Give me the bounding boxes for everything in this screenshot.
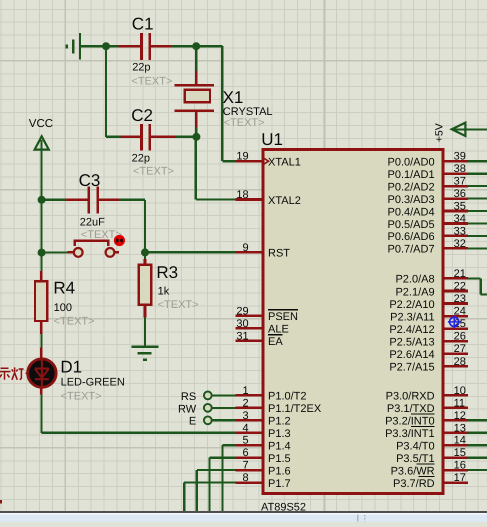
svg-text:P3.3/INT1: P3.3/INT1 bbox=[385, 428, 435, 440]
svg-text:24: 24 bbox=[454, 306, 466, 318]
svg-text:12: 12 bbox=[454, 410, 466, 422]
svg-text:P2.0/A8: P2.0/A8 bbox=[395, 274, 434, 286]
wire pin 38 bbox=[468, 173, 487, 175]
svg-text:15: 15 bbox=[454, 447, 466, 459]
IC U1 AT89S52 body bbox=[263, 150, 443, 494]
svg-text:1: 1 bbox=[242, 385, 248, 397]
U1 pin 37 (P0.2/AD2) stub bbox=[442, 185, 468, 188]
svg-text:EA: EA bbox=[268, 336, 283, 348]
svg-text:C1: C1 bbox=[132, 15, 154, 34]
svg-text:P2.4/A12: P2.4/A12 bbox=[389, 324, 434, 336]
svg-text:<TEXT>: <TEXT> bbox=[131, 75, 172, 87]
capacitor C1 bbox=[140, 33, 151, 60]
wire pin 16 bbox=[468, 469, 487, 471]
svg-text:34: 34 bbox=[454, 213, 466, 225]
U1 pin 38 (P0.1/AD1) stub bbox=[442, 172, 468, 175]
label indicator (chinese) bbox=[0, 367, 24, 379]
U1 pin 6 (P1.5) stub bbox=[236, 456, 264, 459]
ground (below R3) bbox=[131, 347, 158, 360]
resistor R4 pin bottom bbox=[40, 321, 43, 334]
svg-text:1k: 1k bbox=[158, 286, 170, 298]
U1 pin 22 (P2.1/A9) stub bbox=[442, 290, 468, 293]
wire LED to P1.3 bbox=[41, 432, 235, 434]
U1 pin 17 (P3.7/RD) stub bbox=[442, 481, 468, 484]
svg-text:4: 4 bbox=[242, 422, 248, 434]
U1 pin 35 (P0.4/AD4) stub bbox=[442, 210, 468, 213]
crystal X1 bottom pin bbox=[195, 112, 198, 127]
capacitor C1 pin left bbox=[118, 45, 140, 48]
node D junction bbox=[38, 196, 46, 204]
wire R3 vertical drop bbox=[144, 200, 146, 253]
wire P1.5 horizontal bbox=[210, 457, 236, 459]
wire XTAL1 vertical drop bbox=[221, 46, 223, 161]
wire node A down to C2 row bbox=[105, 46, 107, 137]
svg-text:P0.5/AD5: P0.5/AD5 bbox=[388, 219, 435, 231]
terminal RS bbox=[204, 392, 212, 400]
svg-text:100: 100 bbox=[54, 302, 72, 314]
wire VCC stem bbox=[40, 140, 42, 200]
U1 pin 31 (EA) stub bbox=[236, 340, 264, 343]
svg-text:P2.5/A13: P2.5/A13 bbox=[389, 336, 434, 348]
U1 pin 14 (P3.4/T0) stub bbox=[442, 444, 468, 447]
svg-text:VCC: VCC bbox=[29, 118, 53, 130]
svg-text:PSEN: PSEN bbox=[268, 311, 298, 323]
svg-text:P3.5/T1: P3.5/T1 bbox=[396, 453, 435, 465]
svg-text:P0.6/AD6: P0.6/AD6 bbox=[388, 231, 435, 243]
U1 pin 1 (P1.0/T2) stub bbox=[236, 394, 264, 397]
svg-text:XTAL1: XTAL1 bbox=[268, 157, 301, 169]
wire pin 32 bbox=[468, 247, 487, 249]
svg-text:39: 39 bbox=[454, 151, 466, 163]
U1 pin 36 (P0.3/AD3) stub bbox=[442, 197, 468, 200]
wire pin 14 bbox=[468, 444, 487, 446]
svg-text:P2.1/A9: P2.1/A9 bbox=[395, 286, 434, 298]
wire pin 37 bbox=[468, 185, 487, 187]
svg-text:P0.0/AD0: P0.0/AD0 bbox=[388, 157, 435, 169]
U1 pin 18 (XTAL2) stub bbox=[236, 198, 264, 201]
svg-text:32: 32 bbox=[454, 238, 466, 250]
clock marker pin 19 bbox=[262, 157, 268, 165]
svg-text:P3.2/INT0: P3.2/INT0 bbox=[385, 416, 435, 428]
U1 pin 21 (P2.0/A8) stub bbox=[442, 277, 468, 280]
svg-text:27: 27 bbox=[454, 343, 466, 355]
svg-text:<TEXT>: <TEXT> bbox=[158, 299, 199, 311]
svg-text:13: 13 bbox=[454, 422, 466, 434]
wire node E to button bbox=[42, 251, 68, 253]
capacitor C2 bbox=[140, 124, 151, 151]
svg-text:RW: RW bbox=[178, 403, 197, 415]
svg-text:P2.2/A10: P2.2/A10 bbox=[389, 299, 434, 311]
svg-text:<TEXT>: <TEXT> bbox=[224, 117, 265, 129]
svg-text:29: 29 bbox=[236, 305, 248, 317]
svg-text:11: 11 bbox=[454, 397, 465, 409]
svg-text:P1.6: P1.6 bbox=[268, 465, 291, 477]
wire XTAL1 horizontal bbox=[222, 160, 235, 162]
svg-text:10: 10 bbox=[454, 385, 466, 397]
wire P1.7 horizontal bbox=[184, 481, 235, 483]
U1 pin 2 (P1.1/T2EX) stub bbox=[236, 407, 264, 410]
node B junction bbox=[192, 42, 200, 50]
resistor R3 pin bottom bbox=[144, 305, 147, 318]
svg-text:35: 35 bbox=[454, 201, 466, 213]
wire P1.5 vertical bbox=[209, 458, 211, 511]
svg-text:5: 5 bbox=[242, 435, 248, 447]
wire C2 row left bbox=[106, 136, 120, 138]
svg-text:P2.3/A11: P2.3/A11 bbox=[390, 311, 434, 323]
svg-text:22p: 22p bbox=[132, 152, 150, 164]
svg-text:16: 16 bbox=[454, 460, 466, 472]
U1 pin 7 (P1.6) stub bbox=[236, 469, 264, 472]
wire P1.4 vertical bbox=[221, 445, 223, 511]
wire crystal bottom to node C bbox=[195, 127, 197, 137]
U1 pin 23 (P2.2/A10) stub bbox=[442, 302, 468, 305]
U1 pin 29 (PSEN) stub bbox=[236, 315, 264, 318]
wire pin 12 bbox=[468, 419, 487, 421]
wire P1.6 horizontal bbox=[197, 469, 236, 471]
svg-text:28: 28 bbox=[454, 356, 466, 368]
capacitor C2 pin left bbox=[120, 136, 140, 139]
svg-text:ALE: ALE bbox=[268, 324, 289, 336]
sheet edge mark bbox=[0, 500, 2, 503]
svg-text:RST: RST bbox=[268, 248, 290, 260]
wire node F to RST bbox=[145, 251, 236, 253]
wire pin 15 bbox=[468, 457, 487, 459]
svg-text:38: 38 bbox=[454, 163, 466, 175]
svg-text:P3.1/TXD: P3.1/TXD bbox=[387, 403, 435, 415]
wire P1.6 vertical bbox=[196, 470, 198, 511]
U1 pin 13 (P3.3/INT1) stub bbox=[442, 431, 468, 434]
U1 pin 28 (P2.7/A15) stub bbox=[442, 365, 468, 368]
U1 pin 15 (P3.5/T1) stub bbox=[442, 456, 468, 459]
svg-text:36: 36 bbox=[454, 188, 466, 200]
resistor R3 bbox=[139, 265, 151, 305]
svg-text:P0.1/AD1: P0.1/AD1 bbox=[388, 169, 435, 181]
wire pin 34 bbox=[468, 222, 487, 224]
capacitor C1 pin right bbox=[151, 45, 171, 48]
svg-text:33: 33 bbox=[454, 225, 466, 237]
wire LED down bbox=[40, 395, 42, 433]
wire node D to C3 bbox=[42, 199, 67, 201]
svg-text:P1.0/T2: P1.0/T2 bbox=[268, 391, 307, 403]
svg-text:8: 8 bbox=[242, 472, 248, 484]
U1 pin 30 (ALE) stub bbox=[236, 327, 264, 330]
svg-text:LED-GREEN: LED-GREEN bbox=[61, 376, 125, 388]
U1 pin 24 (P2.3/A11) stub bbox=[442, 315, 468, 318]
U1 pin 27 (P2.6/A14) stub bbox=[442, 352, 468, 355]
svg-text:P0.4/AD4: P0.4/AD4 bbox=[388, 206, 435, 218]
wire pin 13 bbox=[468, 432, 487, 434]
svg-text:P2.7/A15: P2.7/A15 bbox=[389, 362, 434, 374]
svg-text:26: 26 bbox=[454, 331, 466, 343]
U1 pin 4 (P1.3) stub bbox=[236, 431, 264, 434]
svg-text:<TEXT>: <TEXT> bbox=[61, 390, 102, 402]
svg-text:P3.6/WR: P3.6/WR bbox=[391, 465, 435, 477]
svg-text:P1.2: P1.2 bbox=[268, 416, 291, 428]
U1 pin 34 (P0.5/AD5) stub bbox=[442, 222, 468, 225]
U1 pin 39 (P0.0/AD0) stub bbox=[442, 160, 468, 163]
svg-text:P0.2/AD2: P0.2/AD2 bbox=[388, 181, 435, 193]
node C junction bbox=[192, 133, 200, 141]
wire node A to C1 bbox=[106, 45, 118, 47]
svg-text:23: 23 bbox=[454, 293, 466, 305]
svg-text:P1.4: P1.4 bbox=[268, 441, 291, 453]
svg-text:9: 9 bbox=[242, 242, 248, 254]
svg-text:P3.4/T0: P3.4/T0 bbox=[396, 441, 435, 453]
LED D1 bbox=[25, 359, 56, 387]
capacitor C3 pin left bbox=[66, 199, 88, 202]
wire VCC to button row bbox=[40, 200, 42, 253]
LED D1 pin top bbox=[40, 348, 43, 360]
capacitor C3 pin right bbox=[99, 199, 119, 202]
ground (top-left) bbox=[67, 33, 80, 59]
LED D1 pin bottom bbox=[40, 387, 43, 395]
wire node E to R4 bbox=[40, 253, 42, 271]
svg-text:30: 30 bbox=[236, 318, 248, 330]
terminal RW bbox=[204, 404, 212, 412]
origin marker (blue crosshair) bbox=[448, 316, 461, 329]
U1 pin 3 (P1.2) stub bbox=[236, 419, 264, 422]
wire C2 to node C bbox=[176, 136, 196, 138]
svg-text:+5V: +5V bbox=[434, 123, 446, 142]
svg-text:3: 3 bbox=[242, 410, 248, 422]
crystal X1 bbox=[175, 85, 214, 110]
wire +5V rail bbox=[453, 128, 487, 130]
svg-text:X1: X1 bbox=[223, 88, 244, 107]
svg-text:18: 18 bbox=[236, 189, 248, 201]
wire node B to crystal top bbox=[195, 46, 197, 71]
U1 pin 12 (P3.2/INT0) stub bbox=[442, 419, 468, 422]
node E junction bbox=[38, 249, 46, 257]
svg-text:P1.5: P1.5 bbox=[268, 453, 291, 465]
svg-text:P0.7/AD7: P0.7/AD7 bbox=[388, 244, 435, 256]
U1 pin 33 (P0.6/AD6) stub bbox=[442, 235, 468, 238]
svg-text:7: 7 bbox=[242, 460, 248, 472]
U1 pin 10 (P3.0/RXD) stub bbox=[442, 394, 468, 397]
svg-text:14: 14 bbox=[454, 435, 466, 447]
svg-text:E: E bbox=[189, 416, 196, 428]
U1 pin 26 (P2.5/A13) stub bbox=[442, 340, 468, 343]
svg-text:<TEXT>: <TEXT> bbox=[54, 315, 95, 327]
U1 pin 16 (P3.6/WR) stub bbox=[442, 469, 468, 472]
svg-text:P1.1/T2EX: P1.1/T2EX bbox=[268, 403, 322, 415]
wire node C to XTAL2 bbox=[195, 137, 197, 200]
capacitor C3 bbox=[88, 186, 99, 213]
svg-text:RS: RS bbox=[181, 391, 196, 403]
status bar bbox=[0, 511, 487, 522]
svg-text:22p: 22p bbox=[132, 62, 150, 74]
capacitor C2 pin right bbox=[151, 136, 176, 139]
svg-text:P3.0/RXD: P3.0/RXD bbox=[386, 391, 435, 403]
svg-text:P1.3: P1.3 bbox=[268, 428, 291, 440]
resistor R3 pin top bbox=[144, 259, 147, 265]
push button bbox=[68, 241, 120, 257]
wire P2.0 right bbox=[468, 277, 481, 279]
wire P1.4 horizontal bbox=[222, 444, 235, 446]
wire P2.0 exit bbox=[481, 293, 487, 295]
svg-text:25: 25 bbox=[454, 318, 466, 330]
wire E to pin bbox=[212, 419, 236, 421]
wire pin 36 bbox=[468, 197, 487, 199]
power +5V bbox=[452, 123, 466, 136]
svg-text:P0.3/AD3: P0.3/AD3 bbox=[388, 194, 435, 206]
power VCC bbox=[35, 136, 49, 149]
wire XTAL2 horizontal bbox=[196, 198, 236, 200]
wire node B to XTAL1 drop bbox=[196, 45, 222, 47]
wire pin 39 bbox=[468, 160, 487, 162]
svg-text:XTAL2: XTAL2 bbox=[268, 195, 301, 207]
svg-text:6: 6 bbox=[242, 447, 248, 459]
U1 pin 8 (P1.7) stub bbox=[236, 481, 264, 484]
svg-text:<TEXT>: <TEXT> bbox=[133, 165, 174, 177]
wire R3 to ground bbox=[144, 317, 146, 346]
wire pin 33 bbox=[468, 235, 487, 237]
svg-text:U1: U1 bbox=[261, 130, 283, 149]
wire R4 to LED bbox=[40, 334, 42, 347]
wire node F to R3 bbox=[144, 252, 146, 259]
svg-text:31: 31 bbox=[236, 330, 248, 342]
U1 pin 11 (P3.1/TXD) stub bbox=[442, 407, 468, 410]
svg-text:C3: C3 bbox=[79, 171, 101, 190]
wire ground to node A bbox=[80, 45, 106, 47]
svg-text:C2: C2 bbox=[131, 106, 153, 125]
U1 pin 5 (P1.4) stub bbox=[236, 444, 264, 447]
svg-text:2: 2 bbox=[242, 397, 248, 409]
node F junction bbox=[141, 248, 149, 256]
U1 pin 19 (XTAL1) stub bbox=[236, 160, 264, 163]
svg-text:22uF: 22uF bbox=[80, 216, 105, 228]
wire RW to pin bbox=[212, 407, 236, 409]
U1 pin 9 (RST) stub bbox=[236, 251, 264, 254]
wire RS to pin bbox=[212, 394, 236, 396]
svg-text:P3.7/RD: P3.7/RD bbox=[393, 478, 435, 490]
svg-text:R4: R4 bbox=[53, 279, 75, 298]
wire pin 35 bbox=[468, 210, 487, 212]
svg-text:19: 19 bbox=[236, 151, 248, 163]
svg-text:D1: D1 bbox=[60, 357, 82, 376]
terminal E bbox=[204, 416, 212, 424]
wire P1.7 vertical bbox=[183, 483, 185, 511]
svg-text:22: 22 bbox=[454, 280, 466, 292]
crystal X1 top pin bbox=[195, 71, 198, 84]
svg-text:P1.7: P1.7 bbox=[268, 478, 291, 490]
svg-text:21: 21 bbox=[454, 268, 466, 280]
button actuator marker bbox=[115, 236, 124, 245]
svg-text:R3: R3 bbox=[156, 263, 178, 282]
U1 pin 25 (P2.4/A12) stub bbox=[442, 327, 468, 330]
resistor R4 bbox=[35, 281, 47, 321]
wire C3 to R3 drop bbox=[119, 199, 145, 201]
svg-text:17: 17 bbox=[454, 472, 466, 484]
resistor R4 pin top bbox=[40, 271, 43, 281]
svg-text:P2.6/A14: P2.6/A14 bbox=[389, 349, 434, 361]
wire P2.0 down bbox=[480, 278, 482, 294]
U1 pin 32 (P0.7/AD7) stub bbox=[442, 247, 468, 250]
node A junction bbox=[102, 42, 110, 50]
wire C1 to node B bbox=[171, 45, 196, 47]
svg-text:37: 37 bbox=[454, 176, 466, 188]
